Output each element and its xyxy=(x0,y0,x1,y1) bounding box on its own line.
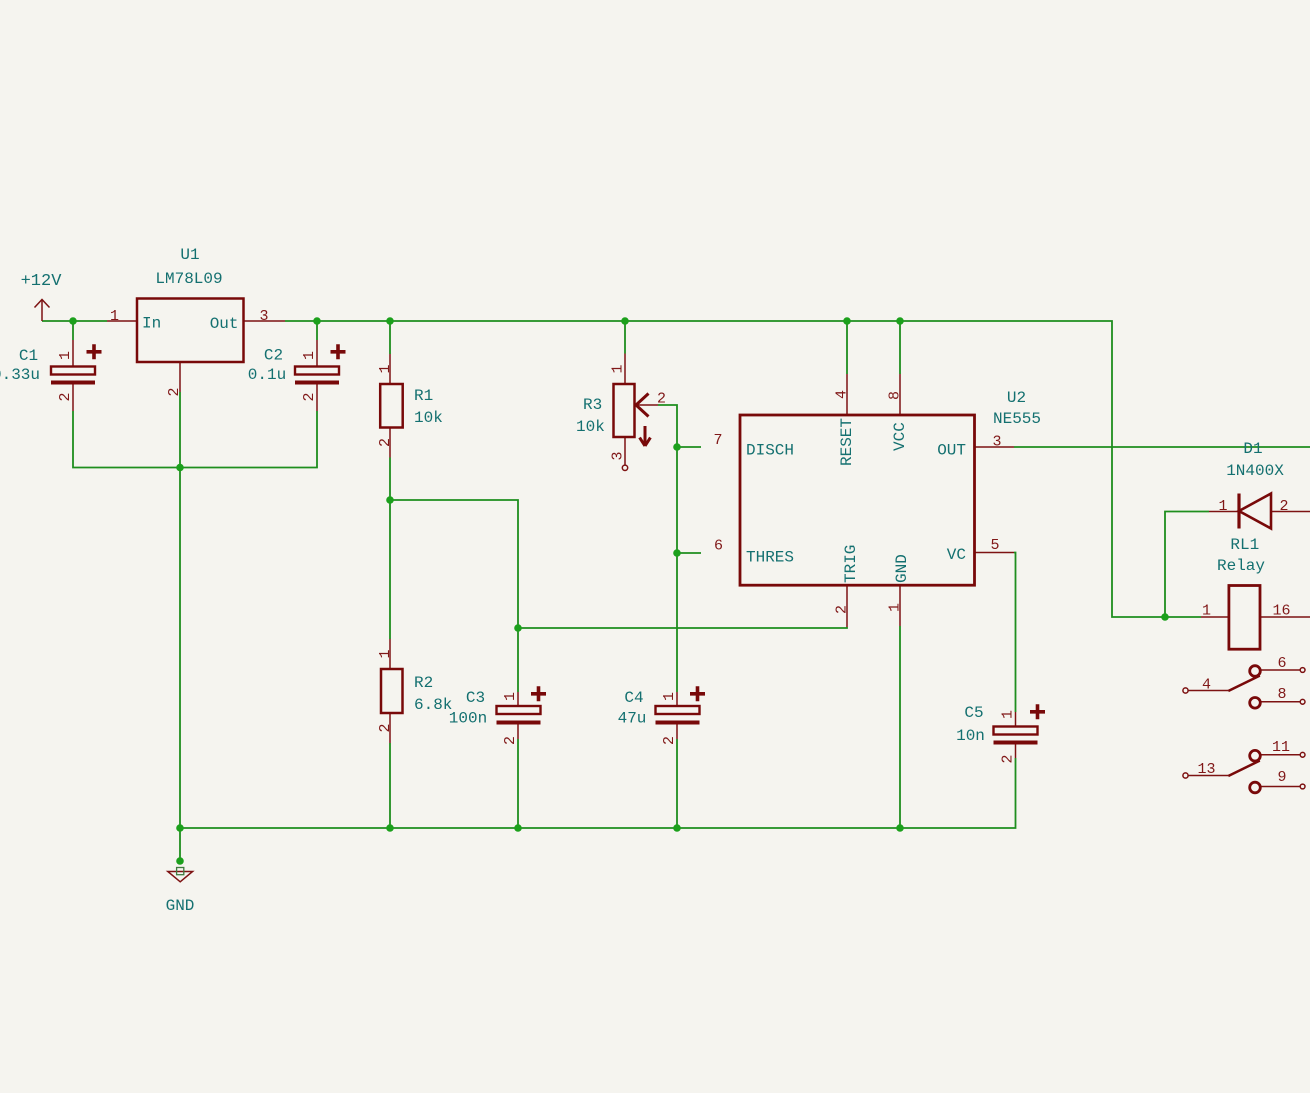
svg-text:9: 9 xyxy=(1277,769,1286,786)
svg-text:2: 2 xyxy=(377,723,394,732)
svg-text:2: 2 xyxy=(1279,498,1288,515)
svg-text:4: 4 xyxy=(834,390,851,399)
svg-text:10n: 10n xyxy=(956,727,985,745)
svg-text:8: 8 xyxy=(887,391,904,400)
svg-text:2: 2 xyxy=(377,438,394,447)
svg-text:OUT: OUT xyxy=(937,442,966,460)
svg-text:GND: GND xyxy=(893,554,911,583)
svg-text:11: 11 xyxy=(1272,739,1290,756)
svg-text:GND: GND xyxy=(166,897,195,915)
svg-text:0.1u: 0.1u xyxy=(248,366,286,384)
svg-text:1: 1 xyxy=(661,692,678,701)
svg-text:C5: C5 xyxy=(964,704,983,722)
svg-text:Out: Out xyxy=(210,315,239,333)
svg-text:47u: 47u xyxy=(618,710,647,728)
svg-text:VC: VC xyxy=(947,546,966,564)
svg-text:2: 2 xyxy=(834,605,851,614)
svg-text:In: In xyxy=(142,315,161,333)
svg-text:2: 2 xyxy=(1000,754,1017,763)
svg-text:4: 4 xyxy=(1202,677,1211,694)
svg-text:3: 3 xyxy=(992,434,1001,451)
svg-text:U2: U2 xyxy=(1007,389,1026,407)
svg-text:C1: C1 xyxy=(19,347,38,365)
svg-text:10k: 10k xyxy=(414,409,443,427)
svg-text:3: 3 xyxy=(259,308,268,325)
svg-text:R3: R3 xyxy=(583,396,602,414)
svg-text:6: 6 xyxy=(1277,655,1286,672)
svg-text:TRIG: TRIG xyxy=(842,545,860,583)
svg-text:C4: C4 xyxy=(624,689,643,707)
svg-text:5: 5 xyxy=(990,537,999,554)
svg-text:10k: 10k xyxy=(576,418,605,436)
svg-text:+12V: +12V xyxy=(21,272,63,291)
svg-text:1: 1 xyxy=(57,351,74,360)
svg-text:1: 1 xyxy=(1218,498,1227,515)
svg-text:100n: 100n xyxy=(449,710,487,728)
svg-text:2: 2 xyxy=(57,392,74,401)
svg-text:1: 1 xyxy=(377,649,394,658)
svg-text:8: 8 xyxy=(1277,686,1286,703)
svg-text:1: 1 xyxy=(301,351,318,360)
svg-text:1: 1 xyxy=(110,308,119,325)
svg-text:C2: C2 xyxy=(264,347,283,365)
svg-text:VCC: VCC xyxy=(891,422,909,451)
svg-text:13: 13 xyxy=(1197,761,1215,778)
svg-text:1: 1 xyxy=(1202,603,1211,620)
svg-text:R2: R2 xyxy=(414,674,433,692)
svg-text:1: 1 xyxy=(377,364,394,373)
svg-text:R1: R1 xyxy=(414,387,433,405)
svg-text:THRES: THRES xyxy=(746,549,794,567)
svg-text:16: 16 xyxy=(1272,603,1290,620)
svg-text:1: 1 xyxy=(502,692,519,701)
svg-text:1N400X: 1N400X xyxy=(1226,462,1284,480)
svg-text:NE555: NE555 xyxy=(993,410,1041,428)
svg-text:U1: U1 xyxy=(180,246,199,264)
svg-text:DISCH: DISCH xyxy=(746,442,794,460)
svg-text:RL1: RL1 xyxy=(1230,536,1259,554)
svg-text:2: 2 xyxy=(301,392,318,401)
svg-text:3: 3 xyxy=(610,451,627,460)
svg-text:Relay: Relay xyxy=(1217,557,1265,575)
svg-text:6.8k: 6.8k xyxy=(414,696,452,714)
svg-text:1: 1 xyxy=(1000,710,1017,719)
svg-text:1: 1 xyxy=(610,364,627,373)
svg-text:2: 2 xyxy=(657,391,666,408)
svg-text:RESET: RESET xyxy=(838,418,856,466)
svg-text:2: 2 xyxy=(166,387,183,396)
svg-text:LM78L09: LM78L09 xyxy=(155,270,222,288)
svg-text:C3: C3 xyxy=(466,689,485,707)
svg-text:0.33u: 0.33u xyxy=(0,366,40,384)
svg-text:2: 2 xyxy=(661,736,678,745)
svg-text:7: 7 xyxy=(713,432,722,449)
svg-text:6: 6 xyxy=(714,538,723,555)
svg-text:D1: D1 xyxy=(1243,440,1262,458)
svg-text:2: 2 xyxy=(502,736,519,745)
svg-text:1: 1 xyxy=(887,603,904,612)
